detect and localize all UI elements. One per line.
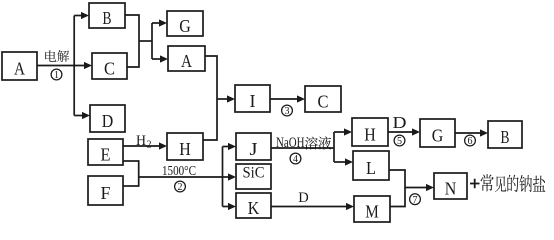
svg-text:6: 6: [468, 136, 473, 147]
box C1: [92, 53, 127, 79]
svg-text:B: B: [501, 127, 510, 147]
svg-text:2: 2: [147, 140, 152, 151]
wire arrow into K1: [223, 206, 230, 208]
wire arrow into I1: [217, 98, 228, 100]
svg-text:H: H: [136, 133, 146, 149]
wire arrow into N1: [405, 187, 427, 189]
box B2: [488, 121, 522, 148]
svg-text:1500°C: 1500°C: [162, 164, 196, 179]
svg-text:K: K: [248, 198, 260, 218]
box SiC: [236, 164, 271, 189]
wire vertical distributor B/C/D: [73, 16, 75, 116]
svg-text:J: J: [250, 139, 258, 159]
wire J1 to split: [271, 147, 334, 149]
label ⑥ step6: [465, 135, 476, 147]
label ③ step3: [282, 105, 293, 117]
wire arrow into G1: [152, 22, 160, 24]
wire distributor J/SiC/K: [222, 147, 224, 207]
svg-text:3: 3: [285, 106, 290, 117]
svg-text:M: M: [365, 201, 379, 221]
wire merge to G1/A2 split: [139, 40, 152, 42]
wire 1500C line: [139, 176, 223, 178]
wire arrow into L1: [334, 161, 346, 163]
box C2: [305, 86, 341, 112]
svg-text:D: D: [298, 190, 309, 206]
svg-text:C: C: [104, 58, 115, 78]
box E1: [88, 139, 123, 165]
wire arrow into H2: [334, 131, 345, 133]
svg-text:A: A: [14, 58, 25, 78]
wire E1 to H1: [123, 145, 160, 147]
wire arrow into SiC: [223, 176, 230, 178]
wire arrow into D1: [74, 115, 83, 117]
svg-text:A: A: [181, 51, 192, 71]
svg-text:C: C: [318, 91, 329, 111]
label ① step1: [51, 69, 62, 81]
svg-text:1: 1: [54, 70, 59, 81]
svg-text:NaOH: NaOH: [276, 135, 305, 151]
box G1: [167, 11, 203, 36]
svg-text:L: L: [366, 158, 376, 178]
box A1: [2, 52, 37, 80]
wire arrow into B1: [74, 15, 82, 17]
wire A2/H1 merge vertical: [203, 56, 217, 140]
box G2: [420, 119, 455, 147]
box B1: [89, 3, 125, 28]
svg-text:D: D: [393, 113, 407, 132]
svg-text:H: H: [364, 124, 376, 144]
wire arrow into J1: [223, 146, 230, 148]
wire E1/F1 merge: [123, 160, 139, 162]
wire G2 to B2: [455, 132, 481, 134]
label 电解: [45, 50, 69, 62]
wire B1/C1 merge elbow: [125, 15, 139, 67]
label ⑤ step5: [394, 135, 405, 147]
box A2: [168, 46, 205, 71]
svg-text:N: N: [445, 178, 457, 198]
wire H2 to G2: [388, 131, 413, 133]
box F1: [88, 176, 123, 205]
svg-text:I: I: [250, 91, 256, 111]
label ⑦ step7: [410, 194, 421, 206]
box D1: [90, 105, 125, 132]
svg-text:B: B: [103, 8, 112, 28]
box H2: [352, 118, 388, 146]
label ④ step4: [290, 153, 301, 165]
wire K1 to M1: [271, 206, 347, 208]
svg-text:E: E: [101, 144, 111, 164]
box I1: [235, 85, 270, 112]
wire L1/M1 merge: [389, 170, 405, 207]
svg-text:7: 7: [413, 195, 418, 206]
svg-text:2: 2: [178, 182, 183, 193]
wire arrow into A2: [152, 58, 161, 60]
svg-text:H: H: [179, 139, 191, 159]
box L1: [353, 151, 389, 180]
svg-text:5: 5: [397, 136, 402, 147]
svg-text:4: 4: [293, 154, 298, 165]
box K1: [236, 193, 271, 218]
label ② step2: [175, 181, 186, 193]
wire split vertical to H2/L: [333, 132, 335, 162]
svg-text:G: G: [432, 125, 444, 145]
box H1: [167, 133, 203, 160]
svg-text:G: G: [179, 16, 191, 36]
svg-text:D: D: [102, 111, 114, 131]
wire I1 to C2: [270, 98, 298, 100]
wire A1 to C1 with junction: [37, 65, 85, 67]
svg-text:F: F: [101, 183, 111, 203]
box J1: [236, 133, 271, 160]
label +常见的钠盐: [470, 174, 545, 192]
box N1: [434, 173, 467, 199]
svg-text:SiC: SiC: [243, 164, 265, 181]
box M1: [354, 196, 390, 222]
